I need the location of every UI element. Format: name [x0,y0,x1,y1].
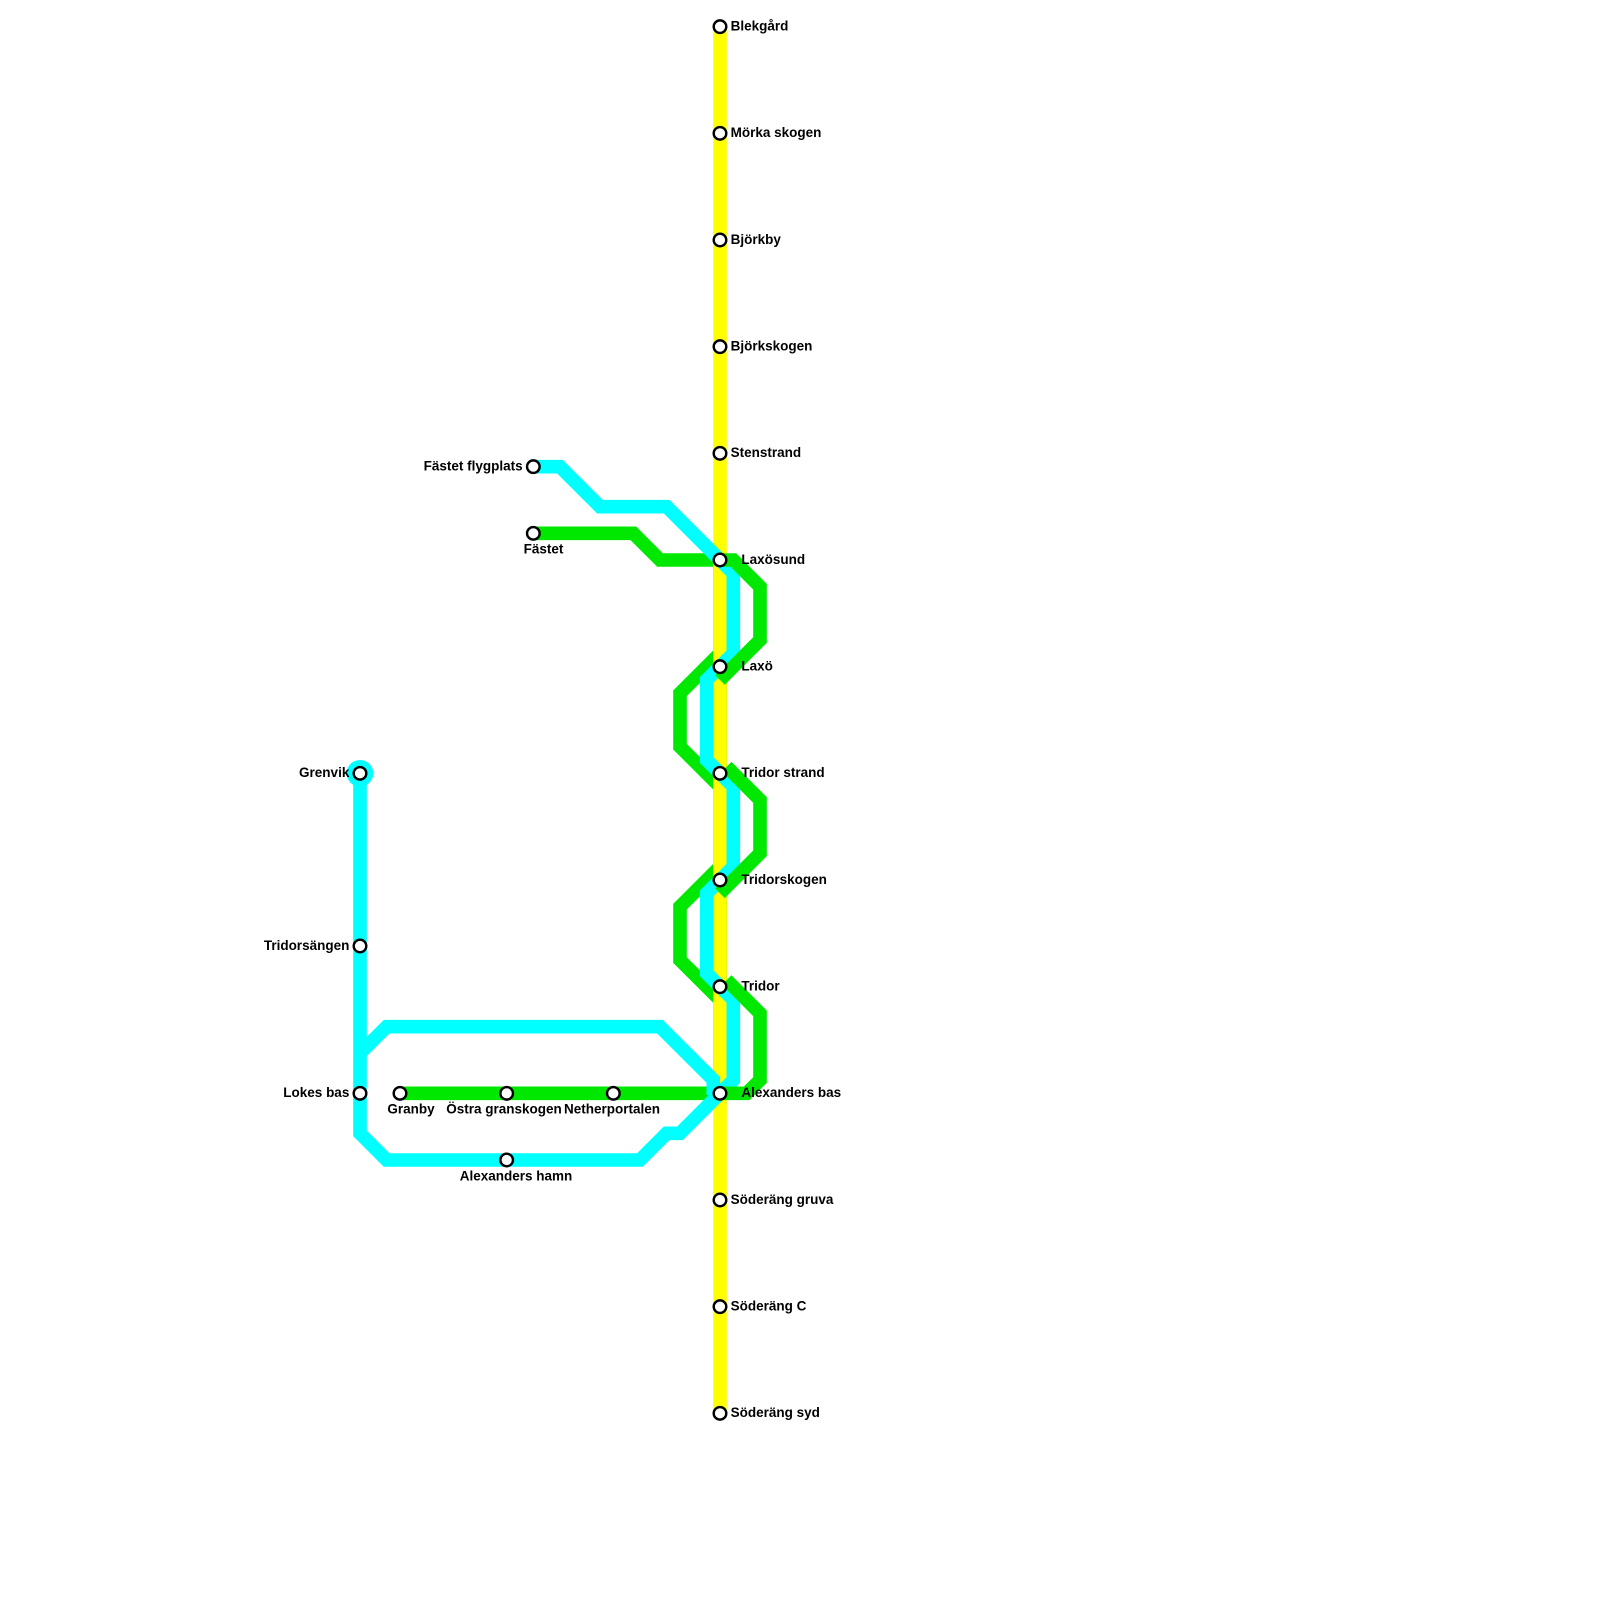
green bulge Laxo - Tridor strand (under cyan) [680,653,720,786]
svg-text:Tridorsängen: Tridorsängen [264,938,350,953]
svg-text:Björkby: Björkby [731,232,782,247]
svg-text:Granby: Granby [387,1102,435,1117]
yellow line [713,27,727,1414]
green bulge Tridor - Alexanders bas (over cyan) [718,980,760,1093]
svg-text:Lokes bas: Lokes bas [283,1085,349,1100]
green bulge Tridorskogen - Tridor (under cyan) [680,867,720,1000]
svg-text:Tridor strand: Tridor strand [741,765,824,780]
svg-text:Söderäng C: Söderäng C [731,1298,807,1313]
svg-text:Söderäng gruva: Söderäng gruva [731,1192,834,1207]
svg-text:Tridor: Tridor [741,978,780,993]
svg-text:Söderäng syd: Söderäng syd [731,1405,820,1420]
svg-text:Stenstrand: Stenstrand [731,445,802,460]
svg-text:Fästet flygplats: Fästet flygplats [424,458,523,473]
svg-text:Alexanders hamn: Alexanders hamn [460,1168,573,1183]
green line: Granby branch to Alexanders bas [400,1087,726,1101]
green bulge Laxosund - Laxo (over cyan) [718,560,760,680]
svg-text:Netherportalen: Netherportalen [564,1102,660,1117]
svg-text:Laxö: Laxö [741,658,773,673]
svg-text:Grenvik: Grenvik [299,765,350,780]
labels right of yellow line [731,18,841,1420]
cyan terminus disc at Grenvik [347,760,374,787]
svg-text:Laxösund: Laxösund [741,552,805,567]
labels left of stations [264,458,523,1100]
green line straight leg (hidden behind yellow) [713,560,727,1093]
svg-text:Fästet: Fästet [524,542,564,557]
svg-text:Alexanders bas: Alexanders bas [741,1085,841,1100]
svg-text:Östra granskogen: Östra granskogen [446,1102,562,1117]
labels below stations [387,542,660,1184]
cyan main route [360,467,733,1160]
green bulge Tridor strand - Tridorskogen (over cyan) [720,767,760,894]
station circles [354,20,727,1419]
cyan branch to Alexanders bas [360,1027,713,1095]
svg-text:Tridorskogen: Tridorskogen [741,872,827,887]
svg-text:Mörka skogen: Mörka skogen [731,125,822,140]
svg-text:Blekgård: Blekgård [731,18,789,33]
green line: Fastet to Laxosund [533,533,726,560]
svg-text:Björkskogen: Björkskogen [731,338,813,353]
